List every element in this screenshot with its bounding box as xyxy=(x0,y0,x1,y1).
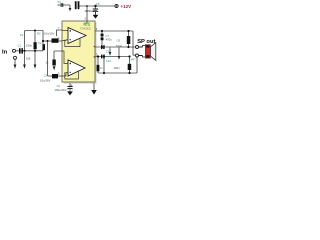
svg-text:100u/16V: 100u/16V xyxy=(55,88,67,92)
svg-text:4R7: 4R7 xyxy=(131,58,137,62)
svg-text:10k: 10k xyxy=(26,57,31,61)
svg-text:C2: C2 xyxy=(38,41,42,45)
svg-text:C1: C1 xyxy=(18,43,22,47)
svg-text:100n: 100n xyxy=(26,43,33,47)
svg-text:+12V: +12V xyxy=(121,4,132,9)
svg-text:C3: C3 xyxy=(44,74,48,78)
svg-text:100n: 100n xyxy=(116,44,123,48)
svg-text:470u: 470u xyxy=(106,38,113,42)
svg-text:C8: C8 xyxy=(117,39,121,43)
svg-text:In: In xyxy=(2,49,8,55)
svg-text:1000u/25V: 1000u/25V xyxy=(85,9,98,13)
svg-text:100n: 100n xyxy=(114,66,121,70)
svg-text:C10: C10 xyxy=(106,59,112,63)
svg-text:S1: S1 xyxy=(58,0,62,4)
svg-text:C5: C5 xyxy=(96,2,100,6)
svg-text:SP out: SP out xyxy=(137,39,155,45)
svg-text:C9: C9 xyxy=(106,50,110,54)
svg-text:R2: R2 xyxy=(37,32,41,36)
svg-text:10u/16V: 10u/16V xyxy=(40,78,51,82)
svg-text:P1: P1 xyxy=(20,33,24,37)
svg-text:TDA2822: TDA2822 xyxy=(80,26,92,30)
svg-text:10u/16V: 10u/16V xyxy=(44,31,55,35)
